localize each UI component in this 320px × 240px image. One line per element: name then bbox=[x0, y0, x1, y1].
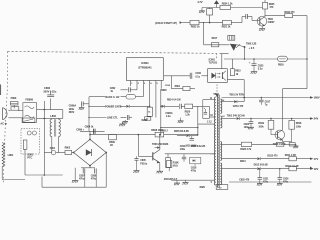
posistor dashed box bbox=[21, 128, 40, 154]
resistor R823 bbox=[207, 9, 213, 15]
resistor R809 bbox=[109, 135, 117, 140]
wire to pin 1 bbox=[197, 124, 199, 135]
svg-text:C814: C814 bbox=[165, 84, 171, 87]
svg-text:C3807: C3807 bbox=[268, 21, 276, 24]
capacitor C824 bbox=[250, 119, 252, 122]
wire bbox=[137, 135, 139, 157]
diode D813 bbox=[257, 157, 260, 160]
capacitor C811 bbox=[191, 136, 193, 139]
capacitor C822 bbox=[276, 142, 284, 146]
capacitor C803 bbox=[126, 115, 128, 120]
transistor Q805 bbox=[257, 16, 267, 26]
resistor R823B bbox=[241, 142, 251, 146]
wire bbox=[171, 179, 214, 181]
IC U801 control IC bbox=[126, 58, 163, 81]
svg-text:R802: R802 bbox=[65, 146, 71, 149]
wire B+ rail bbox=[90, 134, 155, 136]
svg-text:L801: L801 bbox=[8, 153, 14, 157]
wire startup rail bbox=[224, 58, 307, 60]
svg-text:D806 R4.8-R6: D806 R4.8-R6 bbox=[174, 130, 189, 133]
capacitor C823 bbox=[253, 59, 255, 64]
ground bbox=[74, 168, 76, 181]
svg-text:200V 0.22u: 200V 0.22u bbox=[43, 90, 56, 94]
svg-text:D813: D813 bbox=[240, 160, 246, 163]
ground bbox=[261, 26, 263, 28]
svg-text:R822 1k: R822 1k bbox=[191, 26, 200, 29]
wire aux row bbox=[165, 153, 215, 155]
svg-text:1R: 1R bbox=[110, 144, 113, 147]
svg-text:IC801: IC801 bbox=[141, 61, 149, 65]
wire bbox=[18, 110, 23, 112]
wire bbox=[227, 79, 244, 81]
svg-text:470u: 470u bbox=[79, 177, 85, 180]
wire bbox=[72, 152, 74, 154]
pin 1 bbox=[130, 80, 132, 86]
resistor R822 bbox=[190, 20, 199, 25]
wire secondary return bbox=[229, 181, 311, 183]
wire bbox=[164, 75, 190, 77]
diode D819 bbox=[237, 117, 240, 120]
capacitor C808 bbox=[94, 168, 96, 173]
ground bbox=[248, 126, 254, 128]
pin 4 bbox=[149, 80, 151, 107]
transformer secondary winding d bbox=[220, 163, 221, 185]
connector A bbox=[145, 117, 151, 120]
wire bbox=[25, 174, 63, 176]
wire N line bbox=[37, 117, 63, 119]
wire left rail bbox=[88, 97, 90, 132]
ground bbox=[124, 120, 126, 121]
svg-text:2.2u: 2.2u bbox=[166, 115, 171, 118]
svg-text:T801 24V SCAN: T801 24V SCAN bbox=[227, 114, 245, 117]
fusible resistor R826 bbox=[278, 56, 288, 61]
svg-text:C809 +: C809 + bbox=[76, 128, 84, 131]
diode D817 bbox=[222, 101, 234, 103]
resistor R820 bbox=[185, 104, 193, 109]
wire page-edge lead bbox=[0, 85, 2, 96]
svg-text:100k: 100k bbox=[258, 125, 264, 128]
wire bbox=[80, 130, 105, 132]
resistor R825 bbox=[262, 2, 267, 9]
diode D812 bbox=[257, 167, 260, 170]
node 2.5V bbox=[244, 46, 246, 48]
svg-text:F800: F800 bbox=[11, 96, 17, 100]
capacitor C810 bbox=[136, 156, 138, 158]
hot/cold isolation dashed border top bbox=[8, 52, 217, 54]
wire bbox=[62, 110, 64, 119]
wire heater row bbox=[222, 143, 242, 145]
wire 24V rail bbox=[222, 118, 237, 120]
wire bbox=[231, 22, 242, 24]
wire bbox=[24, 149, 26, 175]
ground bbox=[81, 106, 83, 108]
svg-text:MAIN: MAIN bbox=[142, 119, 148, 122]
resistor R815 bbox=[230, 69, 234, 76]
wire bridge return bbox=[105, 153, 107, 188]
svg-text:PTC: PTC bbox=[27, 157, 32, 160]
svg-text:C804 1k: C804 1k bbox=[85, 126, 94, 129]
svg-text:470u: 470u bbox=[283, 180, 289, 183]
ground bbox=[134, 170, 140, 172]
svg-text:R817: R817 bbox=[212, 37, 218, 40]
ground bbox=[119, 123, 125, 125]
svg-text:D820: D820 bbox=[200, 187, 206, 189]
svg-text:R826: R826 bbox=[278, 63, 284, 66]
dashed link to optocoupler bbox=[216, 85, 218, 95]
AC plug P800 bbox=[3, 108, 7, 120]
wire degauss return bbox=[2, 179, 25, 181]
svg-text:100u: 100u bbox=[180, 148, 186, 151]
wire bbox=[43, 101, 45, 153]
diode D802 bbox=[126, 105, 129, 108]
svg-text:FB800: FB800 bbox=[26, 98, 34, 102]
transformer secondary winding a bbox=[220, 99, 221, 114]
ground bbox=[185, 180, 187, 182]
connector CN801 bbox=[27, 131, 31, 135]
svg-text:L802: L802 bbox=[50, 114, 56, 118]
svg-text:(COLD START UP): (COLD START UP) bbox=[155, 21, 177, 25]
node a bbox=[44, 109, 46, 111]
capacitor C801 bbox=[81, 102, 83, 107]
capacitor C821 bbox=[259, 169, 261, 178]
svg-text:C806: C806 bbox=[44, 86, 51, 90]
resistor R821 bbox=[223, 20, 232, 25]
svg-text:150k: 150k bbox=[296, 125, 302, 128]
wire bbox=[203, 23, 205, 45]
capacitor C815 bbox=[189, 73, 191, 79]
capacitor C813 bbox=[228, 35, 235, 40]
svg-text:C821: C821 bbox=[263, 178, 269, 180]
wire bbox=[231, 7, 263, 9]
svg-text:3.3u: 3.3u bbox=[258, 68, 263, 71]
optocoupler IC802 bbox=[208, 69, 228, 83]
diode D805 bbox=[157, 146, 160, 149]
resistor R813 bbox=[147, 107, 152, 116]
svg-text:BACK X. HV: BACK X. HV bbox=[105, 96, 119, 99]
svg-text:FS10u: FS10u bbox=[140, 162, 148, 165]
ground bbox=[201, 8, 203, 11]
wire bbox=[220, 53, 229, 55]
svg-text:1 2.2: 1 2.2 bbox=[207, 122, 213, 124]
svg-text:4.7V: 4.7V bbox=[197, 0, 203, 4]
ground bbox=[174, 182, 180, 184]
transformer core bbox=[216, 95, 218, 188]
wire 17V row bbox=[222, 158, 257, 160]
svg-text:TLP521: TLP521 bbox=[209, 62, 218, 65]
wire bbox=[199, 22, 223, 24]
ground bbox=[295, 144, 297, 146]
svg-text:R823 4.7k: R823 4.7k bbox=[240, 148, 251, 151]
resistor R818 bbox=[289, 120, 295, 129]
diode D807 bbox=[230, 44, 237, 51]
capacitor C805A bbox=[179, 104, 181, 109]
svg-text:D813 470: D813 470 bbox=[267, 155, 278, 158]
svg-text:460V: 460V bbox=[69, 111, 75, 114]
svg-text:D808: D808 bbox=[161, 90, 167, 92]
svg-text:24V: 24V bbox=[314, 117, 319, 121]
resistor R806 bbox=[166, 158, 171, 168]
svg-text:POWER GATE: POWER GATE bbox=[105, 105, 122, 108]
wire bbox=[202, 7, 220, 9]
wire bbox=[164, 134, 198, 136]
bridge rectifier D800 bbox=[74, 139, 107, 165]
wire 12V row bbox=[222, 168, 257, 170]
capacitor C817 bbox=[260, 98, 262, 101]
svg-text:C825 470: C825 470 bbox=[239, 178, 250, 181]
ground bbox=[277, 182, 283, 184]
wire bbox=[197, 106, 199, 135]
transformer T801 primary winding bbox=[214, 97, 215, 185]
wire bbox=[306, 16, 308, 59]
transistor Q800 bbox=[152, 152, 154, 160]
ground bbox=[180, 118, 182, 121]
capacitor C812 block bbox=[203, 107, 210, 119]
wire bbox=[159, 135, 161, 150]
transformer secondary winding c bbox=[220, 142, 221, 161]
svg-text:STR58041: STR58041 bbox=[138, 66, 152, 70]
svg-text:470u: 470u bbox=[91, 177, 97, 180]
capacitor C816 bbox=[231, 22, 242, 24]
wire bbox=[170, 76, 172, 89]
resistor R800 bbox=[11, 107, 19, 111]
wire L line bbox=[37, 109, 63, 111]
wire bbox=[204, 44, 230, 46]
transistor Q803 bbox=[275, 130, 285, 140]
svg-text:GP10 470: GP10 470 bbox=[233, 105, 244, 108]
svg-text:R805 2: R805 2 bbox=[161, 131, 169, 133]
wire 160V rail bbox=[222, 97, 312, 99]
svg-text:LINE CTL: LINE CTL bbox=[107, 117, 118, 120]
connector block bbox=[216, 185, 228, 190]
pin 2 bbox=[136, 80, 138, 89]
svg-text:17V: 17V bbox=[314, 157, 319, 161]
degaussing coil L801 bbox=[2, 143, 5, 167]
diode D803 bbox=[162, 105, 165, 108]
svg-text:470u: 470u bbox=[191, 170, 197, 173]
wire bbox=[161, 127, 198, 129]
thermistor D801 PTC bbox=[23, 140, 27, 149]
fusible resistor R803 bbox=[126, 94, 136, 99]
pin 6 bbox=[160, 80, 162, 88]
svg-text:+ 2.5: + 2.5 bbox=[249, 46, 255, 50]
ground bbox=[251, 71, 257, 73]
svg-text:D804: D804 bbox=[175, 85, 181, 88]
svg-text:T800 2SC4833: T800 2SC4833 bbox=[152, 143, 169, 146]
svg-text:12V: 12V bbox=[314, 167, 319, 171]
pin 3 bbox=[142, 80, 144, 96]
wire bbox=[306, 59, 308, 89]
wire bbox=[56, 152, 65, 154]
wire bbox=[89, 131, 91, 139]
ground bbox=[257, 182, 263, 184]
thermal fuse F801 bbox=[44, 152, 51, 154]
pin 5 bbox=[155, 80, 157, 117]
svg-text:470u: 470u bbox=[263, 180, 269, 183]
relay S801 bbox=[22, 118, 35, 123]
svg-text:(4.6): (4.6) bbox=[173, 165, 178, 168]
capacitor C826 bbox=[279, 169, 281, 178]
svg-text:R821 1k: R821 1k bbox=[222, 26, 231, 29]
hot/cold isolation dashed border left bbox=[3, 52, 7, 184]
pin 9 bbox=[210, 153, 215, 155]
svg-text:1.2k: 1.2k bbox=[185, 114, 190, 117]
wire bbox=[51, 137, 53, 153]
resistor R807 bbox=[167, 160, 172, 167]
transformer secondary winding b bbox=[220, 116, 222, 128]
svg-text:160V: 160V bbox=[314, 96, 320, 100]
svg-text:T806 2.2B: T806 2.2B bbox=[246, 43, 257, 45]
svg-text:D809 KA2.2B: D809 KA2.2B bbox=[191, 145, 206, 148]
svg-text:F801: F801 bbox=[50, 147, 56, 150]
svg-text:0.1u: 0.1u bbox=[195, 75, 200, 78]
svg-text:T801 5V RTN: T801 5V RTN bbox=[229, 93, 244, 96]
pin 11 bbox=[203, 99, 215, 101]
svg-text:D812 5A3.6B: D812 5A3.6B bbox=[254, 163, 268, 166]
ground bbox=[157, 170, 163, 172]
pin 13 bbox=[209, 116, 214, 118]
filter FB801 bbox=[289, 143, 295, 146]
wire bbox=[159, 163, 161, 171]
svg-text:R814 4.4-1W: R814 4.4-1W bbox=[167, 98, 181, 101]
capacitor C807 bbox=[82, 168, 84, 173]
diode D806 bbox=[177, 135, 186, 137]
svg-text:AC-in: AC-in bbox=[0, 122, 7, 126]
svg-text:C826: C826 bbox=[283, 178, 289, 180]
wire bbox=[160, 89, 162, 136]
